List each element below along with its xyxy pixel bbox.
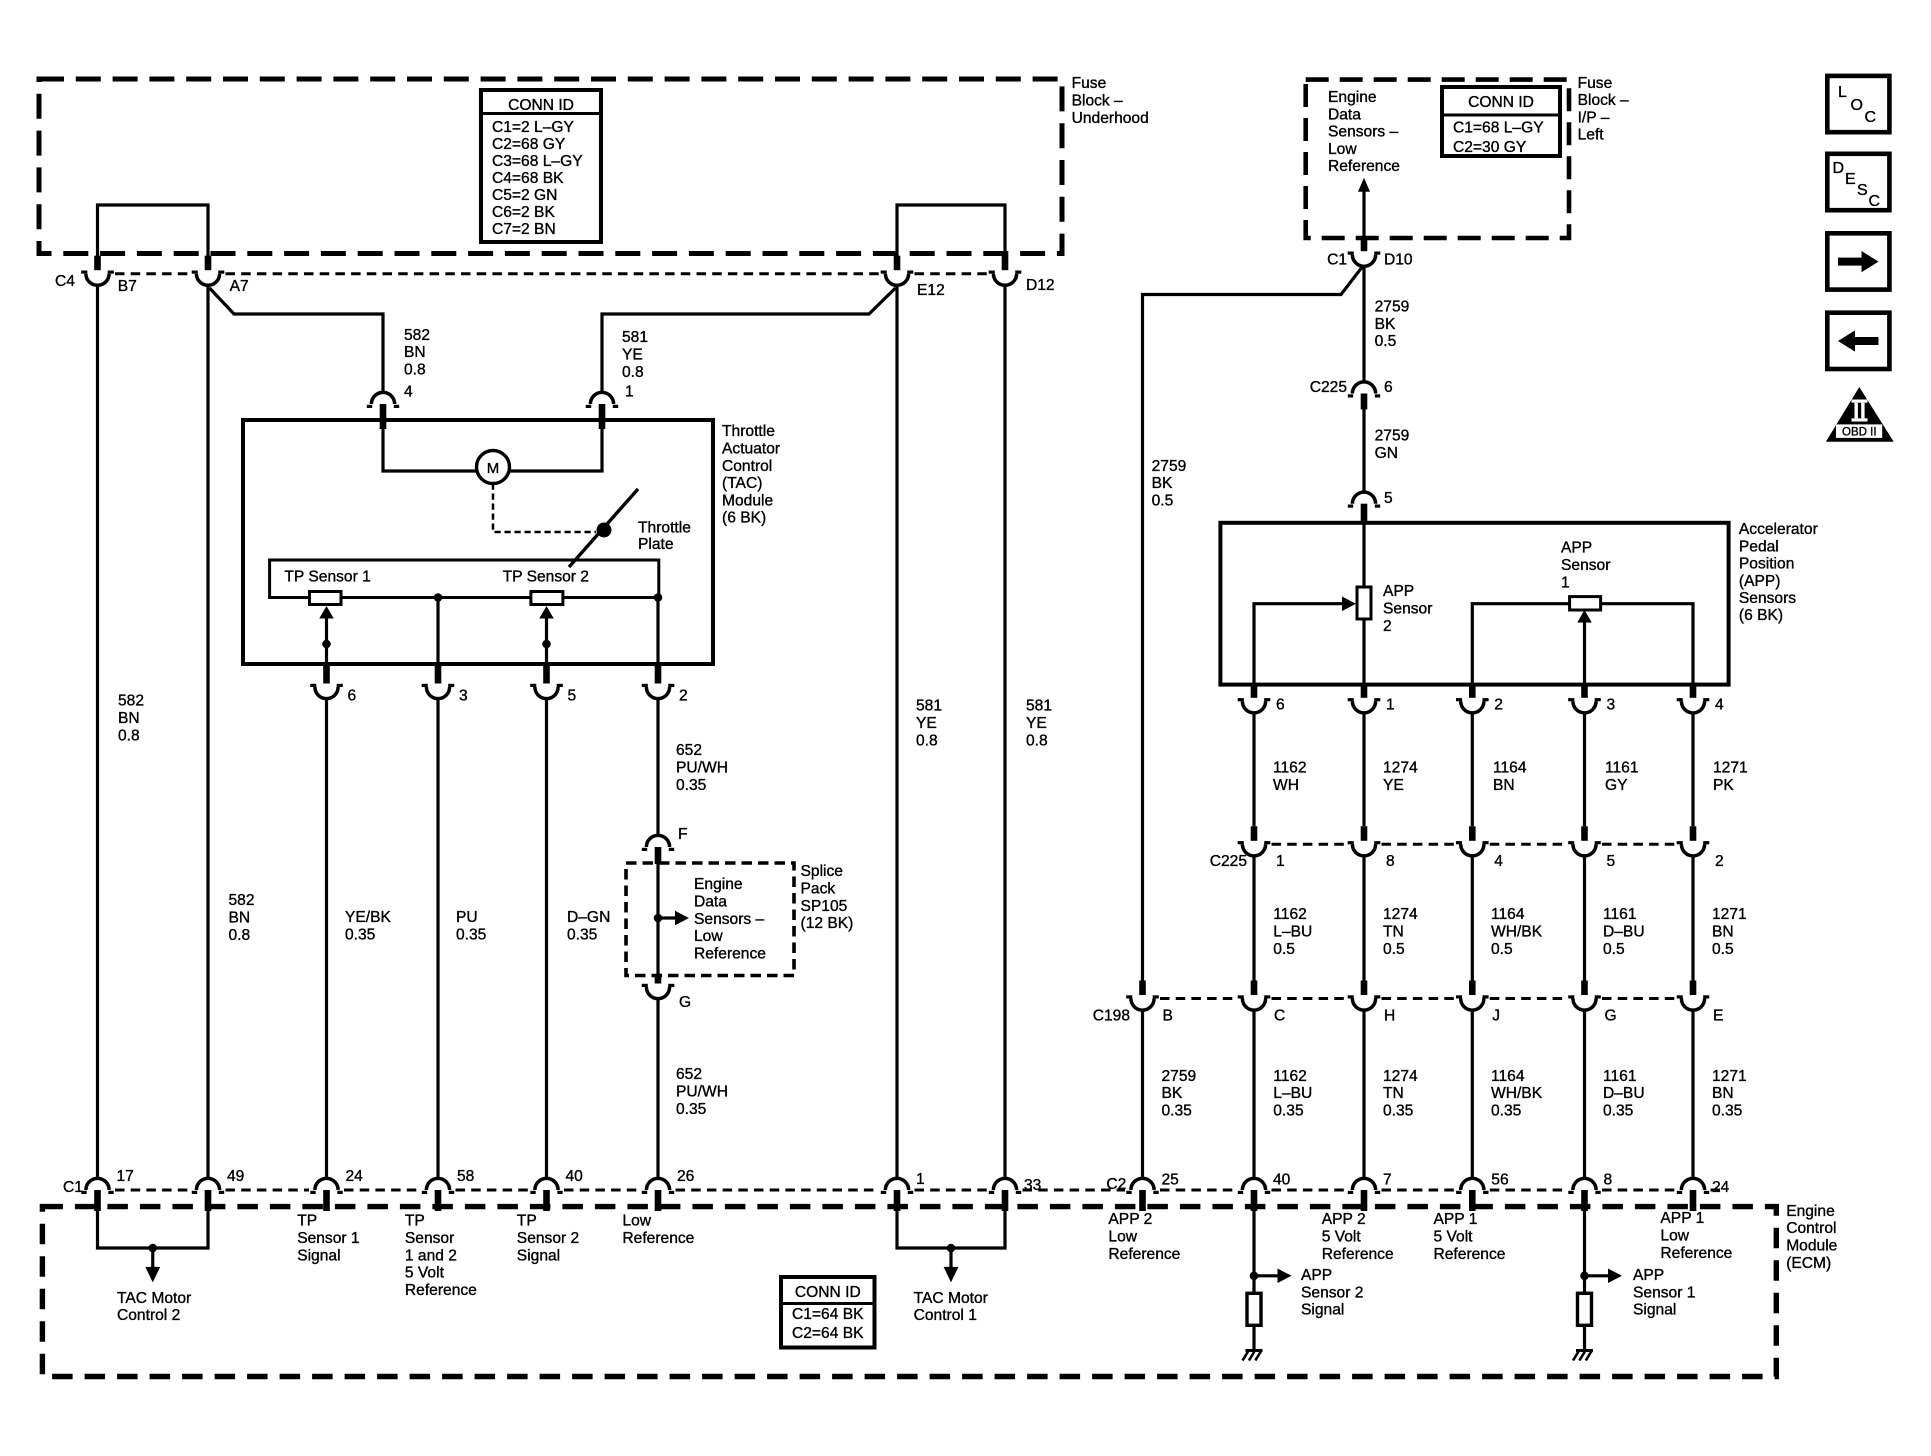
wire 1161 D–BU 0.5 [1583, 856, 1586, 981]
svg-text:C: C [1274, 1008, 1285, 1025]
TP sensor 2 resistive element [531, 592, 563, 605]
wire 582 BN A7 to ECM 49 [206, 285, 209, 1178]
svg-text:24: 24 [1712, 1179, 1730, 1196]
junction TAC motor control 2 [149, 1244, 158, 1253]
svg-text:C198: C198 [1093, 1008, 1130, 1025]
svg-text:5: 5 [568, 688, 577, 705]
svg-text:C2=30 GY: C2=30 GY [1453, 139, 1527, 156]
connector TAC pin 6 [310, 663, 343, 699]
wire: fuse block jumper E12 to D12 [897, 205, 1005, 256]
connector TAC pin 3 [422, 663, 455, 699]
wire 2759 BK D10 to C225 [1362, 266, 1365, 382]
wire 1274 TN 0.35 [1362, 1010, 1365, 1178]
wire 1274 TN 0.5 [1362, 856, 1365, 981]
svg-text:C225: C225 [1210, 853, 1248, 870]
svg-text:5: 5 [1607, 853, 1616, 870]
svg-text:CONN ID: CONN ID [795, 1284, 861, 1301]
svg-text:58: 58 [457, 1168, 474, 1185]
wire TAC pin4 to motor [383, 420, 477, 471]
connector ECM C1 pin 33 [989, 1178, 1021, 1211]
svg-text:C1=2 L–GY: C1=2 L–GY [492, 119, 575, 136]
wire 652 through splice pack [656, 864, 659, 980]
svg-text:4: 4 [1715, 697, 1724, 714]
wire APP sensor 1 resistor to ground [1583, 1325, 1586, 1349]
wire 1164 WH/BK 0.5 [1471, 856, 1474, 981]
wire: fuse block jumper B7 to A7 [98, 205, 209, 256]
svg-text:G: G [679, 994, 691, 1011]
connector TAC pin 4 [367, 392, 399, 429]
junction APP sensor 1 signal [1580, 1272, 1589, 1281]
connector ECM C2 pin 7 [1348, 1178, 1380, 1211]
TP sensor assembly box [270, 560, 659, 598]
connector C198 cavity H [1348, 981, 1381, 1011]
connector C4 cavity D12 [989, 256, 1022, 286]
svg-text:25: 25 [1162, 1172, 1180, 1189]
svg-text:1: 1 [1386, 697, 1395, 714]
connector C198 cavity B [1126, 981, 1159, 1011]
svg-text:C6=2 BK: C6=2 BK [492, 204, 555, 221]
connector ECM C2 pin 24 [1677, 1178, 1709, 1211]
wire APP sensor 2 signal inside ECM [1252, 1210, 1255, 1294]
connector C225 cavity 5 [1568, 826, 1601, 856]
svg-text:O: O [1851, 97, 1863, 114]
svg-text:2: 2 [1494, 697, 1503, 714]
svg-text:TAC MotorControl 1: TAC MotorControl 1 [914, 1290, 988, 1324]
connector G [642, 975, 675, 999]
APP sensor 2 signal arrow lead [1254, 1274, 1279, 1277]
splice junction SP105 [654, 914, 663, 923]
svg-text:EngineControlModule(ECM): EngineControlModule(ECM) [1786, 1203, 1837, 1272]
junction TAC motor control 1 [947, 1244, 956, 1253]
svg-text:C3=68 L–GY: C3=68 L–GY [492, 153, 583, 170]
wire conn5 to APP sensor 2 [1362, 523, 1365, 587]
svg-text:6: 6 [348, 688, 357, 705]
connector C4 cavity E12 [881, 256, 914, 286]
svg-text:OBD II: OBD II [1842, 427, 1877, 439]
svg-text:M: M [487, 460, 500, 477]
svg-text:C2=68 GY: C2=68 GY [492, 136, 566, 153]
svg-text:4: 4 [404, 384, 413, 401]
wire APP sensor2 bottom to pin 1 [1362, 619, 1365, 685]
connector ECM C2 pin 25 [1126, 1178, 1158, 1211]
wire 652 PU/WH upper [656, 699, 659, 836]
connector ECM C1 pin 1 [881, 1178, 913, 1211]
APP sensor 1 element [1472, 597, 1693, 685]
svg-text:C: C [1865, 109, 1877, 126]
wire 581 YE E12 to ECM 1 [895, 285, 898, 1178]
svg-text:C2=64 BK: C2=64 BK [792, 1325, 864, 1342]
svg-text:C1: C1 [1327, 251, 1347, 268]
wire 1161 D–BU 0.35 [1583, 1010, 1586, 1178]
connector APP 5 [1348, 492, 1380, 523]
CONN ID table (underhood fuse block) [481, 90, 601, 242]
wire TAC motor control 1 loop [897, 1210, 1005, 1248]
connector C198 cavity J [1456, 981, 1489, 1011]
connector ECM C1 pin 40 [530, 1178, 562, 1211]
connector APP pin 3 [1568, 684, 1601, 713]
connector C225 cavity 1 [1238, 826, 1271, 856]
wire 2759 BK 0.35 [1141, 1010, 1144, 1178]
svg-text:49: 49 [227, 1168, 244, 1185]
wire 1162 L–BU 0.35 [1252, 1010, 1255, 1178]
svg-text:C1=64 BK: C1=64 BK [792, 1306, 864, 1323]
TP sensor 1 resistive element [310, 592, 342, 605]
wire TAC motor control 2 loop [98, 1210, 209, 1248]
APP sensors box [1220, 523, 1728, 685]
connector face line C1/C2 ECM row [115, 1189, 1722, 1192]
resistor APP sensor 1 pull-down [1578, 1293, 1592, 1325]
connector C225 cavity 6 [1348, 382, 1380, 410]
svg-text:5: 5 [1384, 490, 1393, 507]
svg-text:C4: C4 [55, 273, 75, 290]
wire with up arrow into fuse block [1362, 190, 1365, 240]
connector ECM C2 pin 8 [1568, 1178, 1600, 1211]
connector C1 cavity D10 [1348, 238, 1381, 266]
wire 1162 L–BU 0.5 [1252, 856, 1255, 981]
svg-text:CONN ID: CONN ID [1468, 94, 1534, 111]
svg-text:L: L [1838, 84, 1847, 101]
splice arrow lead [658, 916, 677, 919]
icon DESC box [1827, 154, 1889, 210]
wire 2759 GN [1362, 410, 1365, 493]
fuse block underhood dashed box [39, 79, 1062, 254]
svg-text:1: 1 [625, 384, 634, 401]
connector C198 cavity E [1677, 981, 1710, 1011]
ground APP sensor 2 [1243, 1351, 1263, 1361]
arrow TAC motor control 2 [151, 1248, 154, 1268]
svg-text:D: D [1833, 160, 1845, 177]
svg-text:6: 6 [1384, 379, 1393, 396]
svg-text:C1: C1 [63, 1179, 83, 1196]
connector C4 cavity A7 [192, 256, 225, 286]
svg-text:C: C [1869, 193, 1881, 210]
wire PU 5V reference [436, 699, 439, 1179]
connector C225 cavity 2 [1677, 826, 1710, 856]
svg-text:B: B [1163, 1008, 1173, 1025]
wire 1161 GY [1583, 713, 1586, 826]
svg-text:C225: C225 [1310, 379, 1348, 396]
wire 582 BN branch A7 to TAC pin 4 [210, 288, 384, 392]
connector TAC pin 5 [530, 663, 563, 699]
svg-text:1: 1 [1276, 853, 1285, 870]
connector C225 cavity 4 [1456, 826, 1489, 856]
wire 1274 YE [1362, 713, 1365, 826]
connector APP pin 1 [1348, 684, 1381, 713]
junction: TP sensor 5V ref node [434, 593, 443, 602]
svg-text:8: 8 [1604, 1172, 1613, 1189]
connector APP pin 6 [1238, 684, 1271, 713]
svg-text:3: 3 [459, 688, 468, 705]
connector ECM C1 pin 58 [422, 1178, 454, 1211]
svg-text:G: G [1605, 1008, 1617, 1025]
connector face line C225 row [1272, 843, 1676, 846]
svg-text:E12: E12 [917, 282, 945, 299]
svg-text:C4=68 BK: C4=68 BK [492, 170, 564, 187]
wire 1164 BN [1471, 713, 1474, 826]
TP sensor 1 wiper [325, 616, 328, 663]
svg-text:1: 1 [916, 1171, 925, 1188]
connector ECM C2 pin 40 [1238, 1178, 1270, 1211]
connector APP pin 4 [1677, 684, 1710, 713]
svg-text:TP Sensor 1: TP Sensor 1 [284, 568, 370, 585]
wire 1164 WH/BK 0.35 [1471, 1010, 1474, 1178]
splice pack SP105 dashed box [626, 863, 794, 976]
connector ECM C1 pin 49 [192, 1178, 224, 1211]
svg-text:D12: D12 [1026, 277, 1055, 294]
connector TAC pin 2 [642, 663, 675, 699]
svg-text:40: 40 [1273, 1172, 1291, 1189]
icon OBD II triangle [1826, 387, 1894, 442]
connector C198 cavity C [1238, 981, 1271, 1011]
wire 582 BN B7 to ECM 17 [96, 285, 99, 1178]
svg-text:4: 4 [1494, 853, 1503, 870]
svg-text:J: J [1492, 1008, 1500, 1025]
wire APP sensor 2 resistor to ground [1252, 1325, 1255, 1349]
svg-text:B7: B7 [118, 278, 137, 295]
svg-text:C1=68 L–GY: C1=68 L–GY [1453, 120, 1544, 137]
svg-text:CONN ID: CONN ID [508, 97, 574, 114]
svg-text:D10: D10 [1384, 251, 1413, 268]
connector TAC pin 1 [586, 392, 618, 429]
arrow TAC motor control 1 [949, 1248, 952, 1268]
svg-text:8: 8 [1386, 853, 1395, 870]
ground APP sensor 1 [1573, 1351, 1593, 1361]
APP sensor 1 wiper [1583, 621, 1586, 685]
connector ECM C1 pin 26 [642, 1178, 674, 1211]
motor M [477, 451, 510, 484]
engine control module dashed box [42, 1207, 1776, 1377]
wire 581 YE branch E12 to TAC pin 1 [602, 288, 896, 392]
TAC module box [243, 420, 713, 664]
connector ECM C2 pin 56 [1456, 1178, 1488, 1211]
CONN ID table (I/P fuse block) [1442, 87, 1560, 156]
connector ECM C1 pin 24 [310, 1178, 342, 1211]
svg-text:E: E [1713, 1008, 1723, 1025]
connector F [642, 835, 674, 864]
connector C4 cavity B7 [81, 256, 114, 286]
svg-text:A7: A7 [230, 278, 249, 295]
svg-text:E: E [1845, 171, 1856, 188]
throttle plate [569, 489, 638, 567]
svg-text:C2: C2 [1106, 1176, 1126, 1193]
connector face line C4 row [115, 272, 988, 275]
connector C198 cavity G [1568, 981, 1601, 1011]
svg-text:26: 26 [677, 1168, 694, 1185]
svg-text:7: 7 [1383, 1172, 1392, 1189]
junction: low ref node [654, 593, 663, 602]
wire D-GN TP sensor2 signal [545, 699, 548, 1179]
connector ECM C1 pin 17 [81, 1178, 113, 1211]
svg-text:TAC MotorControl 2: TAC MotorControl 2 [117, 1290, 191, 1324]
junction APP sensor 2 signal [1250, 1272, 1259, 1281]
wire 581 YE D12 to ECM 33 [1003, 285, 1006, 1178]
svg-text:2: 2 [1715, 853, 1724, 870]
junction on TP1 wiper wire [322, 640, 331, 649]
icon LOC box [1827, 76, 1889, 132]
svg-text:H: H [1384, 1008, 1395, 1025]
connector C225 cavity 8 [1348, 826, 1381, 856]
connector face line C198 row [1160, 997, 1676, 1000]
svg-text:2: 2 [679, 688, 688, 705]
svg-text:40: 40 [566, 1168, 584, 1185]
fuse block I/P dashed box [1306, 80, 1569, 238]
svg-text:33: 33 [1024, 1177, 1041, 1194]
resistor APP sensor 2 pull-down [1247, 1293, 1261, 1325]
wire YE/BK TP sensor1 signal [325, 699, 328, 1179]
APP sensor 2 wiper [1254, 604, 1344, 685]
TP sensor 2 wiper [545, 616, 548, 663]
svg-text:C5=2 GN: C5=2 GN [492, 187, 557, 204]
svg-text:S: S [1857, 182, 1868, 199]
wire 1271 BN 0.35 [1691, 1010, 1694, 1178]
wire 1271 BN 0.5 [1691, 856, 1694, 981]
wire 2759 BK branch to C198 B [1143, 267, 1363, 981]
wire motor to TAC pin1 [510, 420, 603, 471]
icon back arrow box [1827, 313, 1889, 369]
svg-text:24: 24 [346, 1168, 364, 1185]
svg-text:TP Sensor 2: TP Sensor 2 [503, 568, 589, 585]
wire 652 PU/WH lower [656, 999, 659, 1179]
svg-text:C7=2 BN: C7=2 BN [492, 221, 556, 238]
icon forward arrow box [1827, 233, 1889, 289]
wire low ref inside TAC [656, 598, 659, 664]
APP sensor 2 resistive element [1357, 587, 1371, 619]
svg-text:6: 6 [1276, 697, 1285, 714]
CONN ID table (ECM) [781, 1277, 875, 1348]
wire APP sensor 1 signal inside ECM [1583, 1210, 1586, 1294]
svg-text:17: 17 [117, 1168, 134, 1185]
svg-text:56: 56 [1491, 1172, 1508, 1189]
junction on TP2 wiper wire [542, 640, 551, 649]
APP sensor 1 signal arrow lead [1585, 1274, 1610, 1277]
wire TP 5V ref inside TAC [436, 598, 439, 664]
svg-text:F: F [678, 826, 688, 843]
svg-text:3: 3 [1607, 697, 1616, 714]
wire 1271 PK [1691, 713, 1694, 826]
wire 1162 WH [1252, 713, 1255, 826]
dashed link motor to throttle plate [493, 484, 596, 533]
connector APP pin 2 [1456, 684, 1489, 713]
